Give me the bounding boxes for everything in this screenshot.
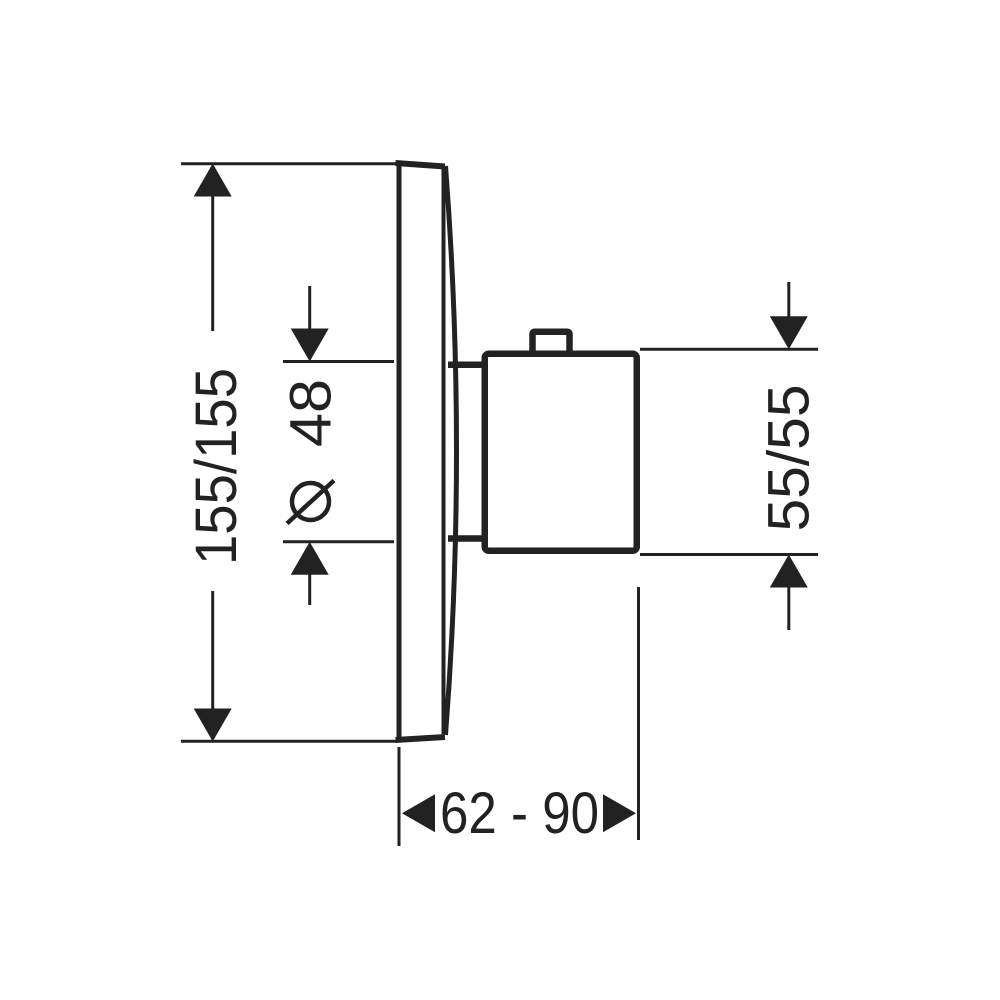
dimension 155/155 lower segment <box>211 591 214 710</box>
dimension 55/55 upper line <box>787 282 790 318</box>
diameter symbol slash <box>287 481 334 524</box>
svg-text:155/155: 155/155 <box>184 368 249 565</box>
extension line bottom left <box>181 740 396 743</box>
diameter 48 arrow up <box>291 542 329 575</box>
dimension 155/155 arrow down <box>194 709 232 742</box>
svg-text:62 - 90: 62 - 90 <box>440 781 599 846</box>
sleeve bottom line <box>448 535 486 542</box>
extension line bottom right <box>640 553 818 556</box>
sleeve top line <box>448 362 486 369</box>
plate face line <box>442 167 446 734</box>
extension line bottom right vertical <box>637 587 640 840</box>
dimension 55/55 lower line <box>787 586 790 630</box>
extension line bottom left vertical <box>398 747 401 846</box>
diameter 48 upper line <box>308 286 311 330</box>
extension line top right <box>640 348 818 351</box>
diameter 48 tick bottom <box>283 540 394 543</box>
svg-text:55/55: 55/55 <box>757 385 822 532</box>
dimension 155/155 arrow up <box>194 164 232 197</box>
diameter 48 arrow down <box>291 329 329 362</box>
diameter 48 tick top <box>283 360 394 363</box>
svg-text:48: 48 <box>279 379 344 447</box>
dimension 62-90 arrow right <box>603 794 636 832</box>
dimension 62-90 arrow left <box>402 794 435 832</box>
handle body <box>485 354 637 551</box>
dimension 155/155 upper segment <box>211 195 214 331</box>
diameter symbol circle <box>292 483 329 520</box>
dimension 55/55 arrow up <box>770 555 808 588</box>
plate left edge <box>397 161 402 741</box>
plate convex curve <box>446 166 457 735</box>
diameter 48 lower line <box>308 573 311 605</box>
plate bottom edge <box>396 737 446 740</box>
extension line top left <box>181 162 397 165</box>
dimension 55/55 arrow down <box>770 316 808 349</box>
plate top edge <box>396 163 446 167</box>
handle button <box>533 332 570 353</box>
